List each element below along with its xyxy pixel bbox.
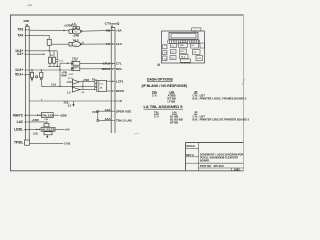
node plus marker (36, 76, 38, 78)
svg-text:1.5: 1.5 (68, 104, 72, 108)
svg-text:4B: 4B (81, 92, 84, 94)
pullup resistors R4 R5 (64, 22, 79, 30)
timer U5 74L123 (41, 113, 66, 122)
wire AA/3 to SPARE USE (99, 108, 132, 114)
svg-text:C7L: C7L (116, 62, 122, 66)
svg-text:50.3+: 50.3+ (15, 73, 23, 77)
decoder U3 (92, 78, 107, 92)
wire to gate U4a input (60, 63, 72, 64)
module U7 part K3 (179, 43, 188, 48)
svg-text:LCF1: LCF1 (116, 79, 124, 83)
table 2 row 1 (154, 114, 205, 118)
svg-text:K9: K9 (194, 52, 197, 54)
svg-text:10: 10 (74, 44, 77, 46)
svg-text:MA/TC: MA/TC (13, 113, 24, 117)
title block frame (186, 143, 244, 172)
svg-text:+C4B: +C4B (72, 33, 79, 37)
svg-text:LT-BB: LT-BB (168, 99, 176, 103)
module U7 part K2 (171, 44, 177, 48)
connector J1 bottom cell (25, 140, 30, 145)
wire junction bar after buffers (82, 82, 84, 90)
table 2 header TBL (154, 111, 160, 115)
svg-text:L5M: L5M (44, 119, 48, 121)
module U7 part K9 (193, 50, 201, 55)
wire node B under cluster (48, 63, 60, 70)
table 1 header JR (194, 90, 198, 94)
timer U6 ALS123 (41, 127, 70, 131)
note heading DASH OPTIONS (147, 77, 174, 81)
svg-text:DOL8: DOL8 (102, 67, 110, 71)
svg-text:+ODB: +ODB (59, 113, 66, 117)
svg-text:C-X: C-X (154, 114, 159, 118)
svg-text:LAC: LAC (17, 120, 24, 124)
svg-text:DOL: DOL (116, 67, 123, 71)
svg-text:4B: 4B (100, 88, 103, 90)
wire LAC pin 4 (17, 118, 49, 124)
svg-text:C4.B: C4.B (64, 142, 70, 146)
svg-text:TX4: TX4 (17, 33, 23, 37)
module U7 micro labels (164, 45, 202, 61)
connector J2 (middle bus connector) (105, 21, 120, 133)
title block scale cell (186, 145, 199, 149)
wire 14.3+ pin 7 to gate U4b (15, 68, 71, 72)
module U7 part K4 (191, 43, 199, 48)
wire 10.3+ pin 5 (15, 49, 57, 53)
resistor R3 (51, 51, 56, 67)
svg-text:C4: C4 (171, 58, 175, 60)
svg-text:1983: 1983 (234, 169, 240, 172)
wire LS/DL pin 34 to timer U6 (14, 128, 41, 132)
svg-text:LBL: LBL (170, 90, 176, 94)
svg-text:R/W: R/W (62, 74, 68, 78)
svg-text:4L45: 4L45 (69, 74, 75, 76)
title block sheet number (232, 168, 241, 172)
svg-text:+5VDC: +5VDC (64, 24, 73, 28)
node C7L pin 9 (103, 62, 122, 66)
capacitor C3 (40, 70, 43, 86)
wire U4a output to J2 pin C7L (80, 62, 111, 64)
wire node C to buffers and U3 (41, 70, 97, 87)
module U7 connector bar (168, 32, 200, 43)
svg-text:JR: JR (194, 111, 197, 115)
gate U4b (71, 67, 80, 71)
wire U1 output to J2 pin XQ (82, 29, 111, 32)
svg-text:14.5: 14.5 (116, 42, 122, 46)
module U7 part K11 (170, 56, 176, 60)
svg-text:LS/DL: LS/DL (14, 128, 23, 132)
svg-text:SCALE: SCALE (186, 145, 195, 148)
node DOL pin 6 (102, 67, 123, 71)
svg-text:SPER USE: SPER USE (116, 109, 131, 113)
wire TX4 pin 3 to resistor R1 (17, 33, 49, 39)
module U7 part K7 (171, 50, 177, 54)
svg-text:D/J: D/J (100, 84, 103, 86)
capacitor C2 (30, 70, 33, 82)
svg-text:B-B : PRINTER LOGIC, FRAMES BO: B-B : PRINTER LOGIC, FRAMES BOARD 3 (193, 96, 247, 100)
wire U3 output to J2 pin DCF8 (107, 90, 112, 92)
capacitor C5 under LAC wire (44, 122, 49, 127)
module U7 part K13 (196, 56, 203, 61)
buffer T2 L5 (67, 81, 95, 95)
wire U2 output to J2 pin LC (82, 41, 112, 45)
svg-text:K13: K13 (197, 58, 202, 60)
module U7 part K12 (180, 55, 189, 59)
svg-text:C-X: C-X (152, 93, 157, 97)
wire MA/TC pin 15 to timer U5 (13, 113, 41, 117)
module U7 part K6 (163, 51, 168, 55)
svg-text:L5A: L5A (67, 80, 72, 84)
svg-text:C2: C2 (172, 45, 176, 47)
node XQ / +5A pin 7 (106, 28, 123, 32)
svg-text:+5VR: +5VR (83, 78, 90, 82)
wire AA/3 to TDA.3 LAB (99, 117, 133, 123)
svg-text:+5V: +5V (65, 127, 70, 131)
capacitor C1 (56, 51, 64, 67)
svg-text:74L123: 74L123 (42, 114, 53, 118)
svg-text:RL2: RL2 (181, 51, 186, 53)
svg-text:REV A: REV A (186, 154, 194, 157)
svg-text:+5A: +5A (116, 28, 122, 32)
svg-text:C3: C3 (172, 51, 176, 53)
module U7 part K8 (180, 49, 187, 54)
node LC / 14.5 pin 8 (106, 42, 122, 46)
svg-text:REL: REL (180, 45, 185, 47)
svg-text:BOARD: BOARD (200, 159, 209, 162)
labels +7W R/W (62, 71, 75, 78)
gate U4a (71, 56, 80, 65)
svg-text:N: N (158, 63, 161, 67)
svg-text:TX3: TX3 (17, 28, 23, 32)
table 1 row 1 (152, 93, 205, 97)
table 1 header LBL (170, 90, 176, 94)
svg-text:ALS123: ALS123 (42, 127, 55, 131)
svg-text:XQ: XQ (106, 28, 111, 32)
svg-text:A: A (82, 41, 84, 45)
title block rev cell (186, 154, 199, 163)
svg-text:10: 10 (75, 32, 78, 34)
table 1 header TBL (152, 90, 158, 94)
svg-text:DCF8: DCF8 (116, 89, 124, 93)
svg-text:14.3+: 14.3+ (15, 68, 23, 72)
wire U4b output to J2 pin DOL (80, 68, 111, 70)
wire 50.3+ pin 8 to capacitor C2 (15, 73, 30, 77)
svg-text:1.5: 1.5 (67, 91, 71, 95)
svg-text:K4: K4 (192, 45, 195, 47)
module U7 part K10 (163, 56, 168, 61)
svg-text:TBL: TBL (152, 90, 158, 94)
svg-text:C7L8: C7L8 (103, 62, 111, 66)
module U7 part K1 (163, 45, 168, 49)
stray mark (242, 79, 245, 86)
resistor R1 (47, 39, 69, 51)
svg-text:DASH OPTIONS: DASH OPTIONS (147, 77, 174, 81)
svg-text:B-B : PRINTER CIRCUIT, PRINTER: B-B : PRINTER CIRCUIT, PRINTER BOARD 3 (193, 117, 250, 121)
svg-text:4.10: 4.10 (51, 83, 57, 87)
wire net 101 from J1 to J2 (29, 98, 122, 101)
table 2 header JR (194, 111, 198, 115)
svg-text:1C5: 1C5 (59, 60, 64, 62)
svg-text:LBL: LBL (172, 111, 178, 115)
svg-text:LA TBL ASSIGNED 5: LA TBL ASSIGNED 5 (144, 105, 183, 109)
title block title text (200, 153, 243, 162)
svg-text:TP/DL: TP/DL (14, 141, 23, 145)
svg-text:+CDR: +CDR (32, 118, 39, 122)
svg-text:3.5L: 3.5L (33, 132, 39, 136)
svg-text:BT-BB: BT-BB (170, 120, 178, 124)
gate U1 (nand +C4B) (69, 29, 82, 38)
svg-text:RL3: RL3 (181, 57, 186, 59)
gate U2 (nand 74LS) (69, 39, 82, 47)
diode CR1 on net 101 (64, 101, 75, 108)
wire U3 output to J2 pin LCF1 (107, 80, 112, 82)
svg-text:TDA.3 LAB: TDA.3 LAB (116, 119, 133, 123)
svg-text:JR: JR (194, 90, 197, 94)
node LCF1 pin 4 (112, 79, 124, 83)
wire 4.3+ pin 6 (17, 52, 45, 56)
svg-text:TEST NO. 975-XXX: TEST NO. 975-XXX (200, 165, 224, 168)
spare gate FCP (92, 110, 98, 121)
svg-text:(IF BLANK / NO RESPONSE): (IF BLANK / NO RESPONSE) (142, 84, 188, 88)
buffer T1 L5A (67, 78, 95, 84)
node DCF8 pin 3 (112, 89, 124, 93)
svg-text:TBL: TBL (154, 111, 160, 115)
table 2 header LBL (172, 111, 178, 115)
wire TX3 pin 2 to gate U1 input (17, 28, 69, 32)
note heading LA TBL ASSIGNED (144, 105, 184, 109)
module U7 part TP (181, 59, 191, 64)
wire GND out to C4.B (30, 142, 71, 146)
resistor R2 (49, 51, 52, 67)
title block test no row (199, 163, 244, 168)
table 1 row 2 (168, 96, 247, 100)
table 2 row 2 (170, 117, 249, 121)
svg-text:GND: GND (24, 19, 30, 23)
connector J1 (left edge connector) (24, 19, 30, 140)
module U7 part K5 (200, 43, 204, 48)
capacitor C6 under U6 (33, 132, 52, 139)
svg-text:4.3+: 4.3+ (17, 52, 23, 56)
module U7 outline (pictorial relay/modem block) (158, 28, 205, 67)
wire TP/DL pin 9 (14, 141, 25, 145)
connector J2 pin ticks (111, 30, 115, 120)
